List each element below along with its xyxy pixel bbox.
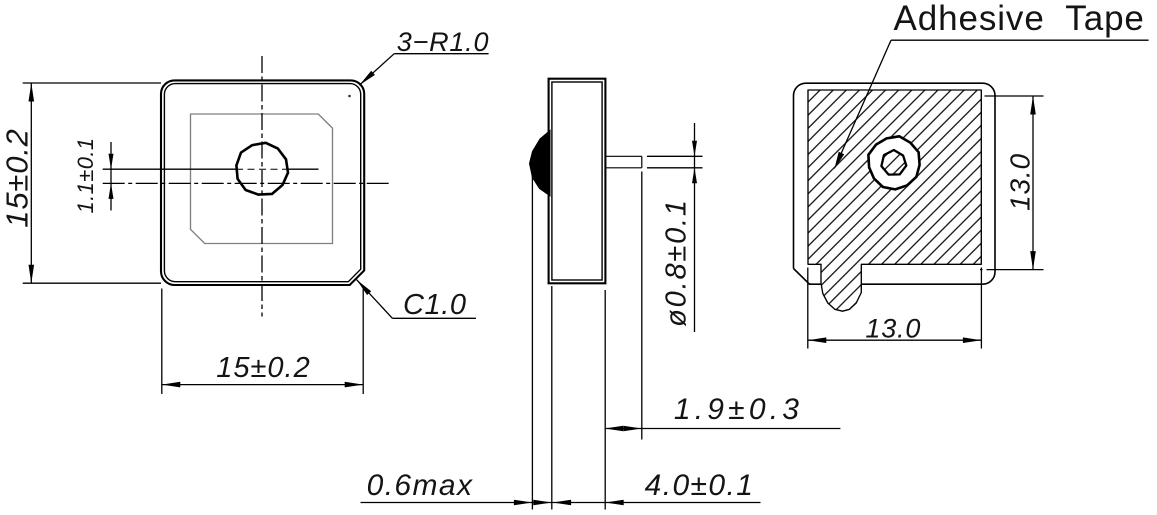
side view: ceramic body outline (outer stroke) [549,79,606,284]
front view: feed offset reference line [103,168,236,170]
front view: silver patch electrode (chamfered square) [191,114,333,244]
front view: horizontal centerline [103,182,390,184]
bottom view: adhesive tape (hatched) with peel tab [808,90,981,311]
side view: ceramic body outline (inner stroke of double line) [552,82,602,280]
dimension ø0.8±0.1 (pin diameter): extension lines [647,155,703,157]
svg-text:15±0.2: 15±0.2 [216,352,311,384]
side view: feed pin [605,155,641,157]
bottom view: body outline bottom-left notch segment [794,269,822,285]
side view: solder bump (filled) on top face [530,131,551,196]
svg-text:3−R1.0: 3−R1.0 [397,27,490,57]
dimension 13.0 (bottom width): dimension line [808,339,982,341]
shared dimension line for 0.6max and 4.0±0.1 [361,502,761,504]
front view: feed hole circle [236,143,288,195]
bottom view: body outline with rounded corners and bottom-left notch [794,83,996,284]
front view: ceramic body outline (outer stroke) [161,80,364,285]
svg-text:ø0.8±0.1: ø0.8±0.1 [660,198,692,327]
front view: vertical centerline [261,56,263,317]
callout C1.0: leader with arrow to chamfer corner [357,280,393,319]
label Adhesive Tape: leader line with arrow into hatch [837,40,892,164]
svg-text:13.0: 13.0 [865,314,921,344]
dimension 15±0.2 (bottom width): extension lines [161,289,163,395]
svg-text:13.0: 13.0 [1005,153,1036,211]
bottom view: pin hole (hatched polygon) [881,150,906,175]
svg-text:C1.0: C1.0 [403,289,467,321]
svg-text:4.0±0.1: 4.0±0.1 [645,469,755,502]
dimension 15±0.2 (bottom width): dimension line [162,384,363,386]
dimension 13.0 (right height): extension lines [985,95,1044,97]
svg-text:1.1±0.1: 1.1±0.1 [73,137,98,213]
svg-text:0.6max: 0.6max [367,469,474,502]
svg-text:Adhesive Tape: Adhesive Tape [894,0,1145,38]
dimension 1.1±0.1 (feed offset): dimension line [110,142,112,211]
dimension 1.9±0.3 (pin length): extension line at pin end [641,172,643,440]
dimension 15±0.2 (left height): extension lines [23,82,161,84]
front view: ceramic body outline (inner stroke of double line) [164,84,360,282]
extension line at body top face (0.6max / 4.0) [551,286,553,510]
bottom view: solder land around pin (white ring) [868,136,919,189]
dimension 15±0.2 (left height): dimension line [30,83,32,283]
stray plot speck near top-right corner [348,95,351,98]
callout 3-R1.0: leader with arrow to rounded corner [359,54,394,85]
label Adhesive Tape: underline [891,39,1149,41]
dimension 13.0 (right height): dimension line [1032,96,1034,270]
svg-text:1.9±0.3: 1.9±0.3 [674,393,803,426]
svg-text:15±0.2: 15±0.2 [0,128,34,227]
dimension 1.9±0.3 (pin length): dimension line [605,428,841,430]
extension line at solder bump apex (0.6max) [531,172,533,510]
dimension 13.0 (bottom width): extension lines [807,268,809,349]
dimension ø0.8±0.1 (pin diameter): dimension line [694,123,696,332]
extension line at body bottom face (4.0) [604,290,606,510]
